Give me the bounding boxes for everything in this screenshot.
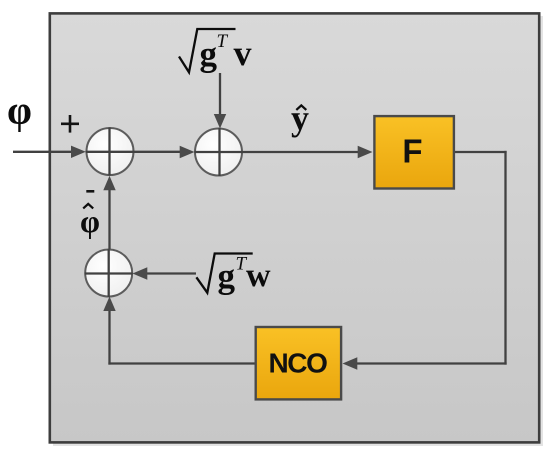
wire S2 cross and to F <box>195 151 363 153</box>
svg-text:y: y <box>291 98 309 138</box>
wire corner to NCO <box>353 362 507 364</box>
summing junction S2 <box>195 129 242 176</box>
svg-text:w: w <box>246 257 271 294</box>
block NCO <box>256 327 341 399</box>
svg-text:T: T <box>217 31 229 52</box>
wire w-noise into S3 <box>143 272 196 274</box>
horizontal cross S3 <box>85 272 133 274</box>
label plus <box>61 115 79 133</box>
arrowhead into F <box>358 146 373 158</box>
svg-text:φ: φ <box>80 203 100 239</box>
vertical cross S2 <box>218 128 220 176</box>
svg-text:φ: φ <box>7 88 32 133</box>
svg-text:v: v <box>234 33 252 73</box>
svg-text:NCO: NCO <box>268 348 327 379</box>
wire corner down <box>504 151 506 365</box>
vertical cross S1 <box>108 128 110 176</box>
arrowhead into S1 bottom <box>103 176 115 191</box>
svg-text:g: g <box>218 257 236 296</box>
wire up into S3 <box>108 307 110 365</box>
block F <box>374 116 454 188</box>
wire F to corner <box>454 151 507 153</box>
svg-text:g: g <box>200 35 218 74</box>
label minus <box>86 190 94 193</box>
summing junction S1 <box>87 128 134 175</box>
wire S3 to S1 <box>108 186 110 249</box>
wire input to S1 <box>13 151 75 153</box>
label sqrt gT v <box>179 29 252 74</box>
svg-text:F: F <box>402 133 422 170</box>
arrowhead into S2 top <box>214 114 226 129</box>
wire NCO to left column <box>108 362 254 364</box>
arrowhead into S2 <box>180 146 195 158</box>
summing junction S3 <box>85 250 132 297</box>
arrowhead into S3 right <box>133 267 148 279</box>
label sqrt gT w <box>196 254 271 296</box>
wire S1 cross and to S2 <box>86 151 184 153</box>
arrowhead into S1 <box>71 146 86 158</box>
wire v-noise into S2 <box>219 73 221 118</box>
arrowhead into NCO <box>343 357 358 369</box>
arrowhead into S3 bottom <box>103 297 115 312</box>
vertical cross S3 <box>108 249 110 297</box>
